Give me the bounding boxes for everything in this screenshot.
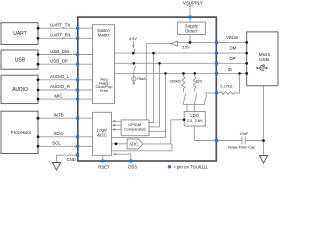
svg-text:Matrix: Matrix — [98, 33, 111, 38]
svg-text:SCL: SCL — [52, 140, 61, 145]
svg-text:ADC: ADC — [129, 142, 138, 147]
svg-text:VSUPPLY: VSUPPLY — [183, 1, 203, 6]
svg-text:DSS: DSS — [128, 164, 137, 169]
svg-text:&I2C: &I2C — [97, 132, 107, 137]
svg-text:GND: GND — [67, 157, 76, 162]
svg-text:2.3, 2.6V: 2.3, 2.6V — [187, 118, 203, 123]
svg-text:Comparators: Comparators — [124, 127, 146, 132]
svg-text:UART_RX: UART_RX — [50, 33, 71, 38]
svg-text:USB: USB — [259, 57, 269, 63]
svg-text:AUDIO_R: AUDIO_R — [50, 84, 71, 89]
svg-text:DP: DP — [230, 56, 236, 61]
svg-text:USB_DM: USB_DM — [50, 49, 69, 54]
svg-text:MIC: MIC — [54, 93, 63, 98]
svg-text:ID: ID — [228, 67, 232, 72]
svg-text:UART: UART — [13, 31, 27, 37]
svg-text:= pin on TSU6111: = pin on TSU6111 — [173, 164, 208, 169]
svg-text:INTB: INTB — [53, 112, 63, 117]
svg-text:AUDIO: AUDIO — [12, 87, 28, 93]
svg-text:USB_DP: USB_DP — [50, 59, 68, 64]
svg-text:USB: USB — [15, 58, 26, 64]
svg-text:SDA: SDA — [54, 131, 63, 136]
svg-text:Detect: Detect — [185, 29, 198, 34]
svg-text:Noise Filter Cap: Noise Filter Cap — [228, 145, 255, 149]
svg-text:DM: DM — [230, 46, 237, 51]
svg-text:10nF: 10nF — [240, 132, 249, 136]
svg-text:75uA: 75uA — [137, 77, 146, 81]
svg-text:VBUS: VBUS — [226, 35, 238, 40]
svg-text:4.6V: 4.6V — [129, 37, 137, 41]
svg-text:AUDIO_L: AUDIO_L — [50, 74, 70, 79]
svg-text:RSET: RSET — [98, 164, 110, 169]
svg-text:280kΩ: 280kΩ — [170, 79, 181, 83]
svg-text:2.27kΩ: 2.27kΩ — [220, 85, 232, 89]
svg-text:620: 620 — [196, 79, 202, 83]
svg-text:Processor: Processor — [11, 130, 32, 135]
svg-text:UART_TX: UART_TX — [50, 23, 70, 28]
svg-text:Free: Free — [100, 88, 109, 93]
svg-text:3.5V: 3.5V — [182, 45, 190, 49]
